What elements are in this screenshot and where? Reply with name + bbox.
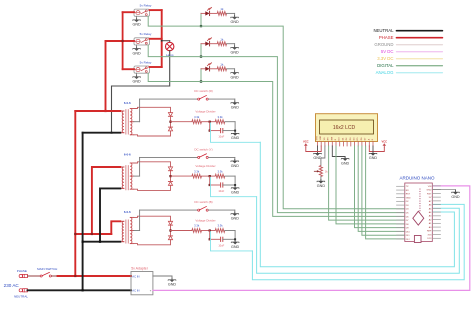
resistor R2A 3.3k <box>192 169 202 178</box>
resistor R3 1k <box>217 62 226 70</box>
wire lamp top <box>161 40 170 42</box>
wire LCD RW to ground <box>332 146 345 157</box>
relay K2 body <box>134 38 150 45</box>
switch SW3 DC switch (B) label <box>194 200 212 204</box>
svg-text:230 AC: 230 AC <box>4 283 20 288</box>
LCD pin stubs and pin labels <box>317 135 375 146</box>
label 5v Adapter <box>131 266 149 270</box>
svg-text:GND: GND <box>132 23 141 27</box>
svg-text:GND: GND <box>341 161 350 165</box>
svg-text:VDD: VDD <box>320 135 322 140</box>
ground LCD RW <box>341 157 350 165</box>
relay K1 body <box>134 9 150 16</box>
wire LCD A to VCC <box>369 146 384 152</box>
svg-text:GND: GND <box>230 50 239 54</box>
legend PHASE <box>379 35 442 40</box>
svg-text:GND: GND <box>231 136 240 140</box>
wire digital branch LED2 <box>200 44 202 58</box>
svg-text:GND: GND <box>451 195 460 199</box>
svg-text:REF: REF <box>427 231 432 233</box>
wire LCD K to ground <box>372 146 374 152</box>
wire analog net A2 <box>211 177 257 196</box>
svg-text:DC switch (Y): DC switch (Y) <box>194 147 212 151</box>
voltage divider 2 label <box>195 164 215 168</box>
svg-text:RX: RX <box>406 190 410 192</box>
wire TR1 secondary loop <box>134 107 171 136</box>
node TR3 rectifier output <box>169 229 171 231</box>
svg-text:6-0-6: 6-0-6 <box>124 210 131 214</box>
legend DIGITAL <box>377 63 442 68</box>
wire lamp bottom to neutral <box>111 51 170 134</box>
voltage divider 1 label <box>195 110 215 114</box>
svg-text:GND: GND <box>317 184 326 188</box>
legend 5V DC <box>381 49 443 54</box>
node TR2 rectifier output <box>169 175 171 177</box>
svg-text:GND: GND <box>231 217 240 221</box>
capacitor C2 10uF <box>210 183 236 193</box>
svg-text:3.3k: 3.3k <box>194 224 200 228</box>
svg-text:VCC: VCC <box>303 139 309 143</box>
svg-text:5v Relay: 5v Relay <box>140 32 152 36</box>
svg-text:GND: GND <box>231 191 240 195</box>
wire rectifier to divider 1 <box>171 121 192 123</box>
ground LCD K <box>369 152 378 160</box>
wire LED3 to ground <box>227 69 235 71</box>
diode D2B <box>168 176 172 185</box>
relay K2 ground <box>132 45 141 55</box>
svg-text:RW: RW <box>331 137 333 140</box>
wire phase feed T2 <box>91 167 121 235</box>
svg-text:GND: GND <box>406 197 411 199</box>
LCD LCD1 16x2 <box>316 114 378 142</box>
wire phase riser to relay2 input <box>106 41 123 111</box>
svg-text:Voltage Divider: Voltage Divider <box>195 110 215 114</box>
svg-text:ANALOG: ANALOG <box>376 70 395 75</box>
wire analog A5 routing (block2) <box>257 197 460 274</box>
node divider tap 1 <box>209 121 211 123</box>
ground arduino <box>451 191 460 199</box>
label 230 AC <box>4 283 20 288</box>
wire LCD E to D8 <box>336 146 404 224</box>
resistor R2 1k <box>217 37 226 45</box>
transformer TR1 label 6-0-6 <box>124 101 131 105</box>
LED D1 <box>201 7 217 15</box>
diode D3B <box>168 231 172 240</box>
svg-text:6-0-6: 6-0-6 <box>124 101 131 105</box>
svg-text:GND: GND <box>231 106 240 110</box>
connector phase <box>19 274 27 277</box>
wire LCD D5 to D10 <box>358 146 404 231</box>
ground LCD VSS <box>313 152 322 160</box>
resistor R3A 3.3k <box>192 224 202 233</box>
wire rectifier to divider 2 <box>171 175 192 177</box>
wire neutral line <box>28 289 132 291</box>
legend GROUND <box>374 42 442 47</box>
svg-text:RST: RST <box>427 193 432 195</box>
svg-text:GND: GND <box>132 80 141 84</box>
resistor R1A 3.3k <box>192 115 202 124</box>
diode D1A <box>168 113 172 122</box>
resistor R2B 3.3k <box>215 169 225 178</box>
transformer TR3 6-0-6 <box>120 217 134 243</box>
wire TR3 center tap <box>134 210 140 230</box>
relay K1 ground <box>132 16 141 26</box>
svg-text:MAIN SWITCH: MAIN SWITCH <box>37 267 57 271</box>
wire TR2 center tap <box>134 157 140 176</box>
svg-text:3.3k: 3.3k <box>217 224 223 228</box>
switch SW2 DC switch (Y) label <box>194 147 212 151</box>
voltage divider 3 label <box>195 219 215 223</box>
svg-text:Voltage Divider: Voltage Divider <box>195 164 215 168</box>
switch SW1 DC switch (R) label <box>194 89 213 93</box>
ground LED3 <box>230 71 239 79</box>
relay K3 ground <box>132 73 141 83</box>
svg-text:VIN: VIN <box>428 186 432 188</box>
relay K1 label <box>140 4 152 8</box>
svg-text:5v Relay: 5v Relay <box>140 4 152 8</box>
svg-text:PHASE: PHASE <box>17 269 27 273</box>
wire neutral feed T3 <box>82 241 121 243</box>
capacitor C3 10uF <box>210 237 236 247</box>
arduino right pin stubs and labels <box>427 186 441 240</box>
svg-text:PHASE: PHASE <box>379 35 394 40</box>
wire relay output bus (right pins) <box>150 10 162 67</box>
svg-text:16x2 LCD: 16x2 LCD <box>333 125 356 131</box>
svg-text:3.3V DC: 3.3V DC <box>377 56 393 61</box>
wire TR3 secondary loop <box>134 216 171 245</box>
svg-text:GND: GND <box>427 190 432 192</box>
switch SW1 DC switch (R) <box>140 96 235 102</box>
wire analog A4 routing (block1) <box>260 142 454 266</box>
svg-text:DC switch (B): DC switch (B) <box>194 200 212 204</box>
label NEUTRAL <box>14 295 28 299</box>
wire LED2 to ground <box>227 44 235 46</box>
wire divider tap down 2 <box>209 176 211 186</box>
lamp label <box>166 53 174 57</box>
svg-text:NEUTRAL: NEUTRAL <box>373 28 394 33</box>
wire adapter gnd out <box>153 276 172 278</box>
power VCC right <box>381 139 387 147</box>
svg-text:ARDUINO NANO: ARDUINO NANO <box>399 175 435 180</box>
ground adapter <box>168 278 177 286</box>
wire TR2 secondary loop <box>134 162 171 191</box>
wire pot to ground <box>320 177 322 180</box>
wire divider to ground rail 2 <box>225 176 235 186</box>
wire digital branch LED1 <box>200 13 202 27</box>
svg-text:GND: GND <box>369 156 378 160</box>
diode D1B <box>168 122 172 131</box>
svg-text:AC IN: AC IN <box>132 288 139 292</box>
switch SW2 DC switch (Y) <box>140 154 235 160</box>
wire digital branch LED3 <box>200 69 202 83</box>
svg-text:3.3k: 3.3k <box>217 115 223 119</box>
relay K3 label <box>140 60 152 64</box>
wire LCD D7 to D12 <box>366 146 405 239</box>
svg-text:VCC: VCC <box>381 139 387 143</box>
transformer TR3 label 6-0-6 <box>124 210 131 214</box>
wire divider mid 3 <box>202 230 216 232</box>
svg-text:3.3k: 3.3k <box>194 115 200 119</box>
label PHASE <box>17 269 27 273</box>
svg-text:GND: GND <box>132 51 141 55</box>
arduino left pin stubs and labels <box>397 186 411 241</box>
legend ANALOG <box>376 70 443 75</box>
wire divider mid 2 <box>202 175 216 177</box>
wire divider tap down 3 <box>209 231 211 241</box>
resistor R1B 3.3k <box>215 115 225 124</box>
svg-text:5V DC: 5V DC <box>381 49 394 54</box>
ground divider 1 <box>231 132 240 140</box>
wire LED1 to ground <box>227 13 235 15</box>
node divider tap 3 <box>209 229 211 231</box>
wire LCD D6 to D11 <box>362 146 404 235</box>
wire LCD VDD to VCC <box>306 146 321 152</box>
potentiometer RV1 1k <box>314 166 328 177</box>
svg-text:3.3k: 3.3k <box>217 169 223 173</box>
svg-text:10uF: 10uF <box>218 189 224 193</box>
wire analog A6 routing (block3) <box>252 204 464 279</box>
wire analog net A3 <box>211 232 253 251</box>
wire 5V DC net <box>153 186 470 291</box>
svg-text:10uF: 10uF <box>218 243 224 247</box>
ground SW1 <box>231 101 240 109</box>
svg-text:AC IN: AC IN <box>132 275 139 279</box>
svg-text:6-0-6: 6-0-6 <box>124 152 131 156</box>
transformer TR2 label 6-0-6 <box>124 152 131 156</box>
node divider tap 2 <box>209 175 211 177</box>
transformer TR1 6-0-6 <box>120 109 134 135</box>
svg-text:RST: RST <box>406 194 411 196</box>
svg-text:NEUTRAL: NEUTRAL <box>14 295 28 299</box>
wire TR1 center tap <box>134 99 140 122</box>
ground SW3 <box>231 212 240 220</box>
wire divider to ground rail 3 <box>225 231 235 241</box>
switch SW-MAIN <box>40 272 51 277</box>
wire neutral riser to T1 <box>82 133 121 292</box>
transformer TR2 6-0-6 <box>120 163 134 190</box>
ground divider 2 <box>231 186 240 194</box>
LED D3 <box>201 63 217 71</box>
arduino icsp pads <box>419 189 420 212</box>
svg-text:DIGITAL: DIGITAL <box>377 63 394 68</box>
lamp LP1 <box>166 42 174 50</box>
wire divider mid 1 <box>202 121 216 123</box>
svg-text:Voltage Divider: Voltage Divider <box>195 219 215 223</box>
label MAIN SWITCH <box>37 267 57 271</box>
diode D2A <box>168 167 172 176</box>
legend NEUTRAL <box>373 28 442 33</box>
wire LCD RS to D7 <box>329 146 405 220</box>
wire phase to switch <box>28 275 41 277</box>
svg-text:DC switch (R): DC switch (R) <box>194 89 213 93</box>
wire LCD D4 to D9 <box>355 146 405 228</box>
svg-text:GND: GND <box>231 245 240 249</box>
ground SW2 <box>231 159 240 167</box>
power supply PS1 (5v adapter) <box>131 272 153 295</box>
relay K3 body <box>134 66 150 73</box>
wire rectifier to divider 3 <box>171 230 192 232</box>
legend 3.3V DC <box>377 56 442 61</box>
wire LCD VSS to ground <box>317 146 319 152</box>
junction riser/T1-feed <box>104 110 106 112</box>
ground pot <box>317 180 326 188</box>
svg-text:GND: GND <box>230 75 239 79</box>
svg-text:5v Relay: 5v Relay <box>140 60 152 64</box>
wire phase feed T3 <box>74 221 120 235</box>
ground divider 3 <box>231 241 240 249</box>
wire LCD V0 to pot <box>321 146 325 166</box>
wire phase riser to T1 <box>74 111 120 277</box>
arduino U1 body <box>405 183 433 242</box>
capacitor C1 10uF <box>210 129 236 139</box>
label ARDUINO NANO <box>399 175 435 180</box>
connector neutral <box>19 289 27 292</box>
svg-text:GND: GND <box>231 164 240 168</box>
wire arduino gnd <box>433 189 456 190</box>
svg-text:3.3k: 3.3k <box>194 169 200 173</box>
ground LED2 <box>230 46 239 54</box>
svg-text:5v Adapter: 5v Adapter <box>131 266 149 270</box>
resistor R1 1k <box>217 7 226 15</box>
svg-text:GROUND: GROUND <box>374 42 393 47</box>
wire digital net D6 (relay3) <box>148 73 404 216</box>
ground LED1 <box>230 16 239 24</box>
LED D2 <box>201 38 217 46</box>
wire neutral feed T2 <box>99 188 120 242</box>
wire divider to ground rail 1 <box>225 122 235 132</box>
junction coil-bus/relay2 <box>122 40 124 42</box>
wire digital net D5 (relay2) <box>148 45 404 213</box>
relay K2 label <box>140 32 152 36</box>
wire relay coil bus (phase to relay left pins) <box>123 12 134 69</box>
wire digital net D4 (relay1) <box>148 16 404 209</box>
svg-text:GND: GND <box>230 20 239 24</box>
wire phase line <box>51 275 131 277</box>
power VCC left <box>303 139 309 147</box>
node TR1 rectifier output <box>169 121 171 123</box>
arduino chip diamond <box>413 211 424 225</box>
diode D3A <box>168 221 172 230</box>
wire divider tap down 1 <box>209 122 211 132</box>
svg-text:VSS: VSS <box>317 136 319 141</box>
switch SW3 DC switch (B) <box>140 207 235 213</box>
svg-text:GND: GND <box>168 283 177 287</box>
arduino usb connector <box>414 236 421 243</box>
resistor R3B 3.3k <box>215 224 225 233</box>
wire analog net A1 <box>211 123 261 142</box>
svg-text:10uF: 10uF <box>218 135 224 139</box>
